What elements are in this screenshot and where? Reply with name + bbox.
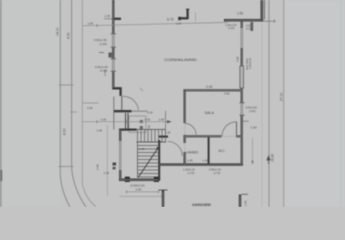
garage east wall	[239, 195, 241, 208]
svg-text:(1.70): (1.70)	[214, 171, 221, 175]
tick and 1.50	[243, 120, 249, 122]
right boundary line D	[261, 21, 263, 207]
dim line entry walk	[83, 102, 99, 104]
svg-text:1.05: 1.05	[165, 130, 171, 134]
tick between A-B lower	[59, 166, 74, 168]
svg-text:(1.62): (1.62)	[249, 110, 256, 113]
svg-text:1.50: 1.50	[251, 126, 257, 130]
right boundary line E	[268, 0, 270, 207]
faint right edge line	[340, 0, 342, 207]
hall bottom wall	[159, 163, 243, 165]
sala top wall	[184, 89, 243, 91]
dark mark 2pct	[113, 163, 117, 166]
stair left rail	[137, 142, 139, 178]
wall centre lines (double-wall texture)	[113, 0, 262, 207]
passage right edge	[165, 111, 167, 130]
window W1 in left wall	[112, 34, 115, 47]
svg-text:(1.20): (1.20)	[228, 27, 235, 30]
top wall stub	[112, 18, 121, 20]
NE corner wall	[261, 0, 264, 21]
passage line	[132, 110, 148, 112]
chimney detail wall vertical	[186, 10, 188, 20]
stair upper treads	[138, 130, 166, 142]
svg-text:2.90: 2.90	[95, 164, 99, 170]
hall top wall	[159, 136, 168, 138]
sill tick W1	[99, 52, 104, 54]
svg-text:14.00: 14.00	[55, 27, 59, 36]
scan edge line left	[0, 0, 2, 207]
stair top line	[137, 128, 167, 130]
garage west wall	[162, 191, 164, 208]
svg-text:1.20x1.00: 1.20x1.00	[249, 57, 252, 69]
stair lower treads	[138, 146, 159, 178]
vestibule window gap	[119, 141, 122, 170]
tick pair left of entry	[70, 111, 77, 113]
stair bottom wall	[119, 179, 160, 182]
svg-text:W.C.: W.C.	[219, 149, 226, 153]
sala south wall	[184, 135, 243, 137]
entry door leaf	[121, 96, 123, 110]
svg-text:3.00: 3.00	[87, 106, 93, 110]
vestibule north wall	[119, 128, 137, 130]
dim tick top-left	[104, 18, 112, 20]
window W2 in left wall	[112, 59, 115, 71]
svg-text:1.40: 1.40	[159, 118, 165, 122]
svg-text:2.90: 2.90	[136, 188, 142, 192]
vestibule west wall	[119, 129, 121, 181]
stair mid landing line	[137, 141, 167, 143]
svg-text:2.40: 2.40	[206, 85, 213, 89]
svg-text:(1.50): (1.50)	[100, 42, 107, 46]
wc door arc	[222, 122, 237, 137]
site boundary line C	[82, 0, 96, 207]
site boundary line B	[72, 0, 86, 207]
wc door gap in sala south wall	[222, 135, 237, 138]
svg-text:COZINHA/LAVAND.: COZINHA/LAVAND.	[164, 57, 197, 62]
svg-text:1.05: 1.05	[88, 22, 94, 26]
window K2 framed	[240, 66, 244, 88]
lavabo door gap	[183, 143, 186, 152]
dim line right of wc	[252, 138, 254, 165]
svg-text:0.30: 0.30	[147, 110, 153, 114]
corner tick kitchen sw	[140, 88, 143, 91]
chimney detail wall horizontal	[180, 17, 188, 19]
svg-text:4.40: 4.40	[103, 70, 107, 76]
svg-text:1.05: 1.05	[187, 158, 193, 162]
svg-text:2.82: 2.82	[224, 92, 230, 96]
svg-text:1.00: 1.00	[101, 117, 107, 121]
svg-text:1.00: 1.00	[244, 200, 248, 206]
sala door gap	[183, 123, 186, 135]
porch inner wall	[125, 113, 127, 130]
tick between A-B upper	[59, 84, 74, 86]
sala door arc	[185, 123, 197, 135]
entry south wall	[114, 110, 132, 112]
svg-text:6.70: 6.70	[167, 18, 174, 22]
entry door arc	[122, 96, 138, 110]
svg-text:2.08: 2.08	[236, 56, 240, 62]
dim line 6.70	[82, 22, 228, 25]
svg-text:16.80: 16.80	[271, 153, 275, 162]
svg-text:1.05: 1.05	[97, 129, 103, 133]
svg-text:1.00: 1.00	[139, 147, 145, 151]
stair right wall	[158, 140, 160, 181]
faint vertical dim line	[106, 125, 108, 196]
tick from corner to boundary	[263, 20, 276, 22]
svg-text:4.50: 4.50	[66, 32, 70, 39]
svg-text:1.05: 1.05	[105, 14, 111, 18]
svg-text:SALA: SALA	[205, 111, 215, 115]
sala west wall	[184, 90, 186, 166]
svg-text:0.80x2.10: 0.80x2.10	[209, 167, 221, 171]
svg-text:1.20x2.10: 1.20x2.10	[183, 167, 195, 171]
site boundary line A	[60, 0, 70, 207]
svg-text:27.00: 27.00	[279, 92, 283, 101]
dim line over stairs	[83, 121, 172, 123]
lavabo wc divider wall	[208, 136, 210, 165]
svg-text:1.20: 1.20	[176, 22, 182, 26]
svg-text:1.05: 1.05	[104, 171, 110, 175]
svg-text:1.40: 1.40	[203, 158, 209, 162]
lower left thin wall	[113, 97, 115, 130]
dim arrow on line E	[267, 156, 270, 164]
svg-text:LAVABO: LAVABO	[186, 150, 199, 154]
top wall kitchen	[224, 19, 263, 22]
svg-text:0.30: 0.30	[145, 118, 151, 122]
window K1 gap	[240, 28, 243, 48]
tick right of chimney	[195, 13, 197, 22]
right boundary line F	[283, 0, 285, 207]
hall door arc	[168, 142, 183, 157]
porch cabinet rect	[129, 116, 146, 133]
svg-text:1.50: 1.50	[237, 12, 243, 16]
stair diagonal up line	[139, 147, 160, 178]
kitchen SW corner wall	[113, 88, 120, 96]
svg-text:GARAGEM: GARAGEM	[192, 203, 211, 207]
window K3 gap	[240, 103, 243, 115]
svg-text:0.60x0.60: 0.60x0.60	[246, 106, 258, 110]
svg-text:8.50: 8.50	[63, 128, 67, 135]
svg-text:(1.70): (1.70)	[188, 171, 195, 175]
left exterior wall of house	[112, 0, 114, 90]
kitchen right wall	[241, 21, 243, 166]
